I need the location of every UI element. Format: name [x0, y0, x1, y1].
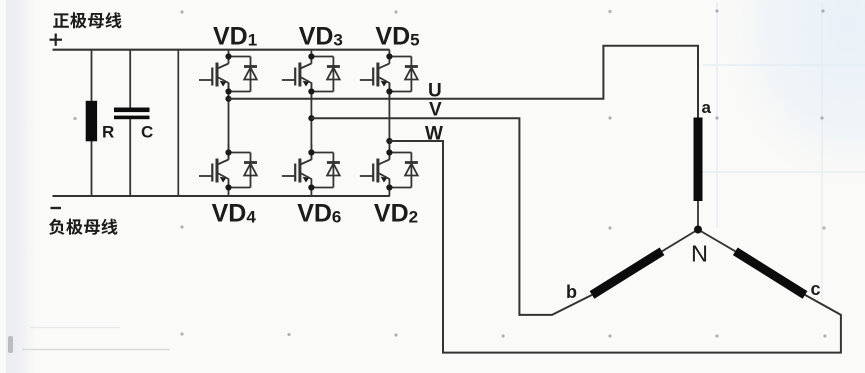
- node U tap: [225, 96, 231, 102]
- svg-text:c: c: [811, 279, 821, 299]
- node N: [694, 226, 702, 234]
- svg-text:V: V: [429, 100, 442, 121]
- igbt VD4: [199, 145, 257, 197]
- igbt VD5: [360, 50, 418, 101]
- capacitor C branch wire top: [129, 50, 131, 108]
- minus terminal: [51, 207, 62, 209]
- wire leg 2 midsection: [310, 83, 312, 160]
- igbt VD1: [199, 50, 257, 101]
- igbt VD3: [282, 50, 340, 101]
- node V tap: [308, 115, 314, 121]
- positive bus wire: [53, 49, 390, 51]
- svg-text:R: R: [102, 123, 114, 142]
- plus terminal: [50, 34, 63, 46]
- winding a body: [694, 118, 703, 202]
- negative bus wire: [53, 195, 390, 197]
- wire bus link branch: [177, 50, 179, 196]
- igbt VD2: [360, 145, 418, 197]
- wire N to winding b: [662, 230, 698, 252]
- label negative bus 负极母线: [49, 219, 117, 235]
- wire V phase: [311, 118, 592, 315]
- resistor R branch wire: [91, 50, 93, 196]
- svg-text:W: W: [425, 124, 443, 145]
- igbt VD6: [282, 145, 340, 197]
- label positive bus 正极母线: [53, 12, 121, 28]
- wire leg 1 midsection: [228, 83, 230, 160]
- wire W phase: [389, 141, 841, 353]
- svg-text:b: b: [566, 282, 577, 302]
- faint page artifacts (decorative): [8, 336, 13, 353]
- wire leg 3 midsection: [388, 83, 390, 160]
- node W tap: [386, 138, 392, 144]
- winding b body: [592, 251, 662, 295]
- svg-text:N: N: [691, 241, 708, 267]
- svg-text:C: C: [141, 123, 153, 142]
- winding c body: [735, 251, 805, 295]
- svg-text:U: U: [428, 81, 442, 102]
- svg-text:a: a: [702, 98, 712, 117]
- resistor R body: [86, 101, 97, 142]
- faint grid lines (decorative): [703, 2, 865, 300]
- capacitor C branch wire bottom: [129, 119, 131, 196]
- wire winding a to N: [697, 201, 699, 230]
- wire U phase: [229, 46, 699, 118]
- wire N to winding c: [698, 230, 735, 252]
- capacitor C plates: [114, 108, 150, 113]
